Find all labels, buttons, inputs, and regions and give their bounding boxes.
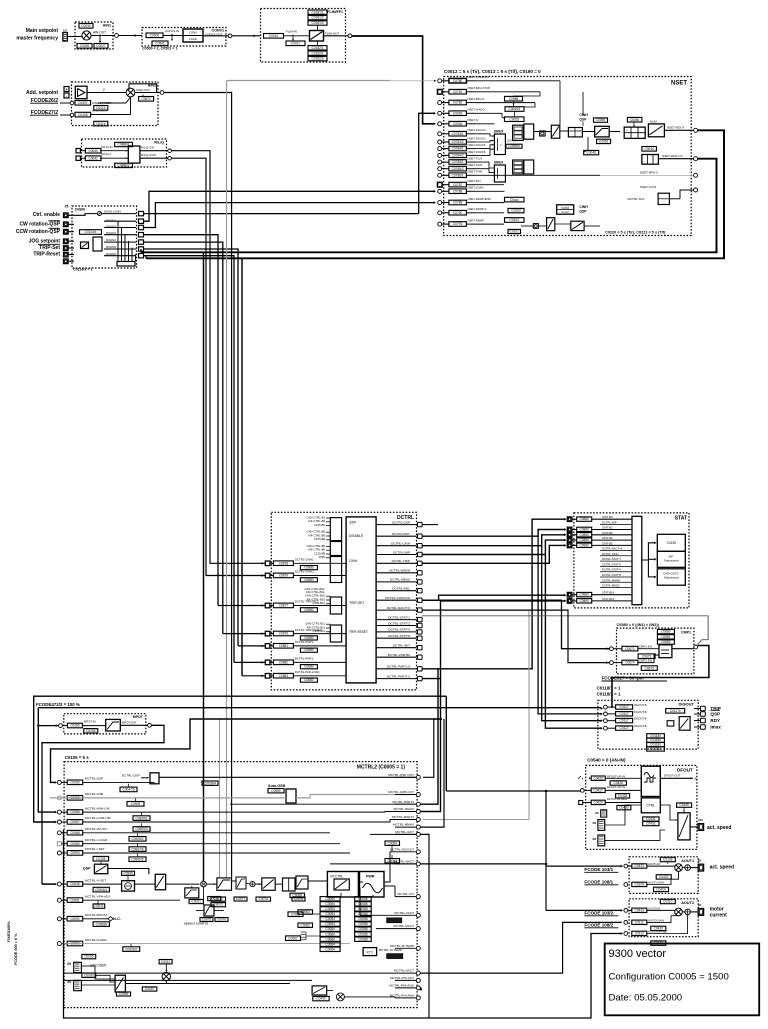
block CONV1 [142,28,226,47]
svg-text:C0114/x = 1: C0114/x = 1 [73,268,92,272]
vf ctrl block [327,872,358,898]
svg-text:C0011: C0011 [94,904,103,908]
block CMP1 [617,628,694,674]
svg-text:C0781: C0781 [453,90,463,94]
NSET jog mux wires [475,134,494,136]
wires nset path [83,883,122,885]
svg-text:STAT-B14: STAT-B14 [602,591,615,595]
svg-text:C0906/1: C0906/1 [95,888,107,892]
wire CONV1 internal [163,35,183,37]
dfout under boxes [643,817,659,821]
svg-text:NSET-RFG-STOP: NSET-RFG-STOP [468,86,491,90]
svg-text:C0181/1: C0181/1 [311,10,323,14]
wire Cx out [669,198,680,200]
svg-text:C0907/6: C0907/6 [131,847,143,851]
digin vertical joins [117,221,119,261]
svg-text:Count: Count [561,210,569,214]
terminal aout2 out [698,909,703,916]
svg-text:MCTRL-N=0: MCTRL-N=0 [627,197,644,201]
svg-text:C0058: C0058 [293,894,303,898]
node circle sym [540,131,546,136]
wire digin2 out [144,203,435,228]
wire bundle v8 [241,258,243,676]
svg-text:C0117: C0117 [620,719,629,723]
wires nset mid [475,80,560,82]
wires CMP [613,648,622,650]
terminal X5 E5 [64,252,69,257]
svg-text:C0540 = 0 (AN-IN): C0540 = 0 (AN-IN) [587,758,626,763]
mctrl interior connectors [330,863,416,865]
sum circle 1 [201,881,207,887]
svg-text:C0061: C0061 [301,910,311,914]
svg-text:C0888/2: C0888/2 [118,164,130,168]
wire RLQ out1 [140,150,168,152]
wire to CONV1 [118,35,142,37]
svg-text:C0988: C0988 [509,97,519,101]
svg-text:C0431: C0431 [646,817,656,821]
svg-text:C0050: C0050 [630,118,640,122]
block CONV1 function [183,29,203,42]
svg-text:AOUT2-OFFSET: AOUT2-OFFSET [648,929,668,933]
wire RLQ in1 [80,150,86,152]
DCTRL main box [346,517,376,683]
svg-text:C0109: C0109 [635,883,645,887]
svg-text:C0041: C0041 [88,156,98,160]
svg-text:C0xxx: C0xxx [510,198,519,202]
svg-text:C0084: C0084 [325,917,335,921]
svg-text:DCTRL-STAT*2: DCTRL-STAT*2 [388,621,410,625]
wire AIN1 out [91,35,114,37]
STAT mux to boxes [642,543,656,560]
svg-text:DCTRL-CINH2: DCTRL-CINH2 [295,570,314,574]
svg-text:FCODE 108/1: FCODE 108/1 [584,880,613,885]
wire gray nact0 to B15 [422,609,529,611]
block AIN2 offset [75,101,91,106]
svg-text:DCTRL-PAR-B0: DCTRL-PAR-B0 [388,653,411,657]
svg-text:STAT-B2: STAT-B2 [602,526,613,530]
svg-text:C0681: C0681 [661,635,671,639]
svg-text:C0790: C0790 [453,211,463,215]
svg-text:MCTRL2 (C0005 = 1): MCTRL2 (C0005 = 1) [357,765,406,771]
svg-text:DCTRL-QSP: DCTRL-QSP [122,773,140,777]
svg-text:62: 62 [698,859,702,863]
chain wires [166,883,200,885]
block AIN2 gain [75,112,91,117]
wire iact bottom wrap [64,830,622,1018]
svg-text:MCTRL-FACT: MCTRL-FACT [394,911,414,915]
dfout connectors [598,820,605,831]
NSET ramp select box [524,124,534,139]
svg-text:FLIM/FF1: FLIM/FF1 [327,10,343,14]
svg-text:C0883: C0883 [279,674,289,678]
svg-text:Ctrl. enable: Ctrl. enable [33,212,60,218]
svg-text:Date: 05.05.2000: Date: 05.05.2000 [609,993,683,1004]
box C0044 [642,147,657,152]
svg-text:C0084: C0084 [325,942,335,946]
svg-text:C0876: C0876 [279,632,289,636]
extra wire stubs [203,887,205,905]
svg-text:R/L/Q-L: R/L/Q-L [102,152,112,156]
svg-text:C0084: C0084 [325,912,335,916]
svg-text:TRIP-SET: TRIP-SET [349,601,364,605]
svg-text:MCTRL-LO/M-LIM: MCTRL-LO/M-LIM [85,816,111,820]
svg-text:CINH: CINH [579,113,588,117]
svg-text:DIGIN1: DIGIN1 [106,219,116,223]
svg-text:NSET-N-ADD: NSET-N-ADD [468,108,485,112]
terminal mpot in [59,724,63,728]
wire qsp feed loop [51,719,443,782]
block DFOUT [586,765,697,849]
svg-text:NSET-LOAD: NSET-LOAD [468,186,484,190]
svg-text:9300 vector: 9300 vector [609,948,667,960]
svg-text:C0909/2: C0909/2 [125,947,137,951]
wire NOUT down to MCTRL [207,252,209,258]
svg-text:C0909: C0909 [131,802,141,806]
svg-text:JOG+N: JOG+N [507,139,516,143]
wire RDY down to DIGOUT [538,536,601,714]
svg-text:C0046: C0046 [453,122,463,126]
wires mpot [62,725,67,727]
svg-text:C0427: C0427 [593,788,603,792]
svg-text:CMP1-IN2: CMP1-IN2 [639,658,652,662]
wire to NOUT [664,129,693,131]
wire NSET RFG wrap [141,159,717,253]
svg-text:NSET-RFG-I=0: NSET-RFG-I=0 [662,154,683,158]
svg-text:C0880: C0880 [304,678,314,682]
aout2 sum [685,909,691,915]
param left boxes [288,912,303,917]
svg-text:C0103: C0103 [511,209,521,213]
svg-text:MCTRL-NSET2: MCTRL-NSET2 [392,800,414,804]
svg-text:MCTRL-QSP: MCTRL-QSP [85,777,103,781]
svg-text:Statusword: Statusword [664,559,679,563]
svg-text:C0110: C0110 [663,900,672,904]
NSET rfg arith [568,128,582,137]
svg-text:C0675: C0675 [645,666,655,670]
svg-text:C0785/2: C0785/2 [452,167,464,171]
terminal aout1 out [698,864,703,871]
svg-text:NSET-RFG-0: NSET-RFG-0 [640,171,658,175]
svg-text:C0044: C0044 [644,147,654,151]
wire RLQ out2 [140,157,168,159]
svg-text:MCTRL-MACT: MCTRL-MACT [394,924,415,928]
svg-text:DCTRL-PAR*2: DCTRL-PAR*2 [295,657,314,661]
svg-text:PWR: PWR [366,875,375,879]
svg-text:DCTRL-TRIP-SET: DCTRL-TRIP-SET [295,600,318,604]
digout qsp overline [710,709,720,711]
svg-text:C0050: C0050 [70,781,80,785]
terminal X5 E4 [64,246,69,251]
multiplier AIN2 [126,88,135,97]
svg-text:act. speed: act. speed [710,865,734,871]
wire CMP thin loop [422,616,708,645]
MCTRL under boxes col [120,787,137,792]
svg-text:DIGOUT-B: DIGOUT-B [634,703,647,707]
STAT right boxes [657,534,685,551]
svg-text:TRIP-RESET: TRIP-RESET [349,630,368,634]
svg-text:MPOT-IN: MPOT-IN [84,720,96,724]
wire gray to NSET [227,80,391,82]
svg-text:C0785/1: C0785/1 [452,160,464,164]
terminal aout2 in1 [624,909,628,913]
terminal FCODE27 circle [70,113,74,117]
NSET switch1 [551,125,560,138]
svg-text:C0021: C0021 [192,900,202,904]
svg-text:DCTRL-WARN: DCTRL-WARN [389,569,410,573]
s-ramp block [642,155,659,165]
wire wrap hilim [38,708,55,812]
svg-text:DCTRL-CINH: DCTRL-CINH [602,552,618,556]
svg-text:C0909/3: C0909/3 [135,827,147,831]
svg-text:MCTRL-GSB: MCTRL-GSB [85,792,103,796]
svg-text:DCTRL-IMP: DCTRL-IMP [393,550,410,554]
NSET RFG ramp block [595,126,610,137]
svg-text:AIN2-GAIN: AIN2-GAIN [92,109,107,113]
svg-text:C0991: C0991 [70,898,80,902]
switch low 1 [547,218,555,231]
svg-text:-: - [627,134,628,138]
svg-text:STAT-B5: STAT-B5 [602,541,613,545]
svg-text:C0095: C0095 [84,955,94,959]
box C0101 [508,229,521,233]
svg-text:AIN1: AIN1 [103,24,111,28]
svg-text:63: 63 [698,903,702,907]
svg-text:DCTRL-WARN: DCTRL-WARN [602,578,620,582]
svg-text:MCTRL-MSET2: MCTRL-MSET2 [392,815,414,819]
svg-text:C0429: C0429 [593,801,603,805]
wire AIN2 to bundle [164,93,232,878]
svg-text:NSET-RAMP-0: NSET-RAMP-0 [468,207,487,211]
arith block right [624,127,645,138]
wire RLQ in2 [80,157,86,159]
aout1 mult [675,864,683,872]
svg-text:AIN-OUT: AIN-OUT [93,31,106,35]
svg-text:Configuration C0005 = 1500: Configuration C0005 = 1500 [609,972,729,983]
svg-text:C0860: C0860 [579,543,589,547]
svg-text:NSET-CINH/NLC: NSET-CINH/NLC [468,75,489,79]
nadd gray [61,943,350,945]
terminal X5 E2 [64,230,69,235]
svg-text:DCTRL-INIT: DCTRL-INIT [393,644,410,648]
dfout row3 [579,801,583,805]
svg-text:X9: X9 [592,821,596,825]
digin wires [68,223,74,225]
NSET input terminals and boxes [438,79,442,83]
svg-text:Statusword: Statusword [664,576,679,580]
dfout ctrl box [641,798,660,813]
svg-text:FCODE 108/2: FCODE 108/2 [584,923,613,928]
svg-text:CMP1: CMP1 [681,631,691,635]
wires into CMP [422,600,609,649]
svg-text:MCTRL-BOOST: MCTRL-BOOST [85,913,108,917]
block FLIM limiter [310,31,324,42]
svg-text:MCTRL-I-LOAD: MCTRL-I-LOAD [85,838,108,842]
svg-text:C0040: C0040 [88,149,98,153]
svg-text:NSET-RAMP: NSET-RAMP [468,219,484,223]
svg-text:C0011: C0011 [291,42,300,46]
svg-text:C0195: C0195 [96,857,106,861]
field weakening [296,876,308,889]
svg-text:DFOUT-IN-NEG: DFOUT-IN-NEG [607,797,627,801]
svg-text:NSET-NOUT: NSET-NOUT [667,126,685,130]
phase blocks bottom [312,986,327,995]
block DIGIN [72,206,137,268]
svg-text:C135-B9: C135-B9 [314,537,325,541]
svg-text:MPOT-OUT: MPOT-OUT [122,721,137,725]
block AIN2 [72,82,159,126]
svg-text:MCTRL-M-TEMP: MCTRL-M-TEMP [390,944,414,948]
svg-text:DIGIN5: DIGIN5 [106,245,116,249]
svg-text:N.C.: N.C. [113,916,121,921]
terminal NSET-RFG-0 [694,173,698,177]
svg-text:C0680: C0680 [661,630,671,634]
svg-text:C0111: C0111 [635,920,644,924]
gray riser msete [420,819,423,821]
svg-text:C0500: C0500 [150,34,160,38]
svg-text:AOUT1: AOUT1 [681,859,694,863]
svg-text:STAT: STAT [675,516,687,522]
svg-text:+: + [626,128,628,132]
svg-text:C0084: C0084 [325,937,335,941]
svg-text:DCTRL-IMP: DCTRL-IMP [602,521,617,525]
svg-text:CW rotation-QSP: CW rotation-QSP [19,222,60,228]
svg-text:C0430: C0430 [619,806,629,810]
wire cinh riser to NSET [419,113,434,213]
multiplier AIN1 [82,31,91,40]
wire AIN2 out [135,92,160,94]
wire QSP stub [422,524,438,526]
svg-text:DCTRL-STAT*4: DCTRL-STAT*4 [388,628,410,632]
dfout x6 [601,810,607,817]
svg-text:CONV1-IN: CONV1-IN [165,29,179,33]
terminal X5 39 [64,259,69,264]
dfout inner wires [605,822,641,824]
svg-text:C0877: C0877 [279,604,289,608]
svg-text:DFOUT-AN-IN: DFOUT-AN-IN [607,785,625,789]
svg-text:MCTRL-QSP-OUT: MCTRL-QSP-OUT [388,773,414,777]
svg-text:DCTRL-STAT*1: DCTRL-STAT*1 [388,615,410,619]
svg-text:C0788: C0788 [453,189,463,193]
node RLQ o1 [168,149,172,153]
aout2 mult [675,908,683,916]
svg-text:DFOUT-OUT: DFOUT-OUT [664,774,681,778]
svg-text:MPOT: MPOT [133,715,144,719]
dfout act speed out [690,826,697,828]
svg-text:MCTRL-N-ADD: MCTRL-N-ADD [85,938,107,942]
MCTRL row stub wires [83,797,180,799]
wire wrap joins [145,256,147,259]
svg-text:C0882: C0882 [279,661,289,665]
box rfg up [584,150,599,154]
svg-text:FCODE 005 = 0 %: FCODE 005 = 0 % [14,933,18,965]
ramp box right [185,888,199,898]
svg-text:C0880: C0880 [304,608,314,612]
svg-text:X9: X9 [67,962,71,966]
svg-text:FCODE017 = 50 rpm: FCODE017 = 50 rpm [602,676,644,681]
block RLQ logic [128,146,140,163]
NSET priority box [513,125,524,140]
svg-text:MCTRL-I/M-INT: MCTRL-I/M-INT [85,827,107,831]
svg-text:DIGIN: DIGIN [75,208,85,212]
digin output rows [104,220,136,222]
wire to FLIM [232,35,260,37]
svg-text:C0026: C0026 [80,44,90,48]
svg-text:C0990: C0990 [271,789,281,793]
box C0051 under rfg [597,139,611,143]
svg-text:DCTRL-STAT*4: DCTRL-STAT*4 [602,568,621,572]
wires low [521,225,533,227]
svg-text:NSET-RAMP-END: NSET-RAMP-END [468,197,491,201]
svg-text:KTY: KTY [366,950,373,954]
terminal X6 1/2 [63,33,68,42]
svg-text:AOUT1-GAIN: AOUT1-GAIN [648,880,664,884]
node t3 [348,34,352,38]
svg-text:Add. setpoint: Add. setpoint [26,90,58,96]
svg-text:C0987: C0987 [70,820,80,824]
encoder wires [81,965,95,967]
wire bundle to dctrl inputs [218,605,265,607]
svg-text:C0791: C0791 [453,222,463,226]
QSP ramp [93,856,109,861]
svg-text:MCTRL-HI/M-LIM: MCTRL-HI/M-LIM [85,806,110,810]
svg-text:C0012 = 5 s (Tir), C0013 = 5 s: C0012 = 5 s (Tir), C0013 = 5 s (Tif), C0… [444,69,541,74]
aout1 offset chain [671,871,679,879]
wire digin3 out [144,235,219,606]
svg-text:C0909/4: C0909/4 [204,781,216,785]
svg-text:QSP: QSP [83,867,91,871]
wire CONV1 out [203,35,228,37]
wire digin4 out [144,242,223,633]
svg-text:C0433: C0433 [635,908,645,912]
CMP compare box [659,645,672,658]
svg-text:C0988: C0988 [70,831,80,835]
terminal NSET-NOUT [694,128,698,132]
svg-text:C0084: C0084 [325,902,335,906]
svg-text:C0050: C0050 [596,118,606,122]
box digin logic [93,237,102,251]
svg-text:DCTRL-CINH: DCTRL-CINH [391,542,410,546]
op-amp AIN2 [75,86,87,99]
nset bottom rows wires [475,184,504,186]
wire digin cinh out [144,213,419,215]
svg-text:DCTRL-STAT*8: DCTRL-STAT*8 [388,634,410,638]
svg-text:C0992: C0992 [70,917,80,921]
svg-text:QSP: QSP [710,712,720,717]
svg-text:DCTRL-PAR-LOAD: DCTRL-PAR-LOAD [295,670,319,674]
svg-text:MCTRL-PHI-ACT: MCTRL-PHI-ACT [390,976,414,980]
svg-text:DIGOUT-B: DIGOUT-B [634,724,647,728]
svg-text:C0789: C0789 [453,201,463,205]
svg-text:C0094: C0094 [119,992,129,996]
svg-text:NLIM: NLIM [650,120,657,124]
svg-text:V/f-CTRL: V/f-CTRL [330,875,344,879]
svg-text:C0784/1: C0784/1 [452,147,464,151]
svg-text:NSET-TI1/3: NSET-TI1/3 [468,157,483,161]
svg-text:C0182/3: C0182/3 [311,57,323,61]
vph C0011 [93,904,105,908]
terminal aout1 in1 [624,864,628,868]
svg-text:C0880: C0880 [304,648,314,652]
svg-text:LOAD: LOAD [189,37,197,41]
node AIN2 out [160,91,164,95]
bottom row wires [63,972,395,974]
svg-text:DCTRL-PAR*1-0: DCTRL-PAR*1-0 [387,665,410,669]
svg-text:C0220 = 5 s (Tir), C0221 = 5 s: C0220 = 5 s (Tir), C0221 = 5 s (Tif) [605,231,666,235]
svg-text:C0117: C0117 [620,726,629,730]
svg-text:C0086: C0086 [358,922,368,926]
svg-text:AOUT1-IN: AOUT1-IN [648,862,660,866]
block MCTRL2 [64,762,417,1008]
